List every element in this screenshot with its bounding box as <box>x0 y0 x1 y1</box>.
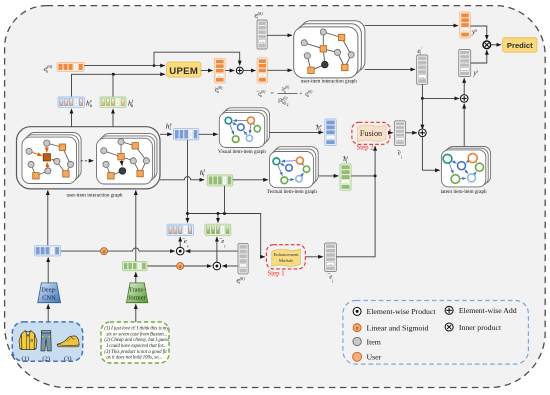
jeans icon <box>41 331 51 351</box>
svg-text:UPEM: UPEM <box>169 66 198 77</box>
wire branch to add3 <box>422 97 459 99</box>
legend sigma symbol <box>353 324 361 332</box>
op inner product <box>483 41 491 49</box>
wire h_tilde_t to fusion junction <box>351 175 375 177</box>
left user-item graph stack 2 <box>97 134 158 184</box>
wire transformer embedding to product2 <box>147 265 211 267</box>
wire transformer to embed <box>135 272 137 283</box>
svg-text:Trans-: Trans- <box>129 286 145 293</box>
latent item-item graph box <box>441 147 490 187</box>
wire reviews to transformer <box>135 304 137 322</box>
svg-text:latent item-item graph: latent item-item graph <box>441 189 488 195</box>
wire e_i(0) to graph <box>267 34 292 36</box>
embedding e_bar_t <box>205 224 231 235</box>
wire graph to e_prime_i <box>365 68 415 70</box>
junction bus e_bar_t drop <box>217 212 220 215</box>
wire h_i_v down to e_bar_v <box>187 140 189 223</box>
wire h_i_t to textual graph <box>233 179 268 181</box>
op element-wise product 1 <box>176 247 184 255</box>
wire cnn embed up to container <box>47 191 49 246</box>
wire container to h_i_t (hops over h_i_v line) <box>160 177 204 180</box>
Predict box <box>503 38 537 53</box>
embedding h_tilde_i_t <box>340 164 351 191</box>
dashed arrow between user-item graphs <box>81 160 94 162</box>
nodes and edges of left user-item graph 1 <box>26 140 74 179</box>
embedding e_i(0) bottom <box>238 243 248 274</box>
nodes of textual item-item graph <box>273 157 310 184</box>
svg-text:user-item interaction graph: user-item interaction graph <box>301 79 357 85</box>
embedding e_tilde_i <box>394 121 405 146</box>
wire container to h_i_v <box>160 133 172 135</box>
wire e_bar_i to fusion junction <box>336 178 375 257</box>
embedding h_i_t <box>207 175 232 186</box>
user-item interaction container (left) <box>17 127 161 189</box>
wire e_tilde_i to add2 <box>406 132 417 134</box>
shoe icon <box>57 336 79 347</box>
wire add3 to y_i <box>463 78 465 94</box>
svg-text:Element-wise Product: Element-wise Product <box>367 307 437 316</box>
embedding h_i_v <box>174 129 199 140</box>
svg-text:six or seven case from Buxton.: six or seven case from Buxton... <box>106 332 167 337</box>
op sigma 1 (linear+sigmoid) <box>101 248 108 255</box>
svg-text:Step 1: Step 1 <box>268 271 285 278</box>
svg-text:σ: σ <box>103 249 106 255</box>
svg-text:Visual item-item graph: Visual item-item graph <box>218 149 266 155</box>
op element-wise add 3 <box>460 95 468 103</box>
svg-text:Module: Module <box>279 258 293 263</box>
nodes of latent item-item graph <box>443 154 483 184</box>
wire cnn to embed <box>47 258 49 283</box>
wire inner product to Predict <box>491 44 501 46</box>
legend element-wise add symbol <box>445 306 453 314</box>
UPEM module box <box>167 62 201 77</box>
svg-text:Inner product: Inner product <box>459 323 502 332</box>
Deep-CNN trapezoid <box>38 283 61 303</box>
wire container to h_u_v <box>71 109 73 127</box>
wire container to h_u_t <box>112 109 114 127</box>
user-item interaction graph box (top) <box>294 21 365 78</box>
reviews text box <box>101 322 169 363</box>
wire latent graph to add3 <box>463 104 465 150</box>
svg-text:Enhancement: Enhancement <box>274 252 300 257</box>
op element-wise product 2 <box>213 262 221 270</box>
svg-text:Step 2: Step 2 <box>357 145 375 152</box>
wire add2 down to latent graph <box>422 137 439 171</box>
wire images to cnn <box>47 304 49 322</box>
wire feedback branch up over UPEM <box>154 52 240 65</box>
wire transformer embed up to container (hop crossing) <box>135 191 137 262</box>
svg-text:CNN: CNN <box>42 294 56 301</box>
formula e_bar normalization <box>256 86 314 107</box>
embedding h_u_t <box>100 97 126 107</box>
wire e_prime_i down <box>421 84 423 129</box>
wire product1 to e_bar_v <box>179 237 181 247</box>
jacket icon <box>19 331 37 350</box>
svg-text:I could have expected that for: I could have expected that for... <box>105 344 166 349</box>
svg-text:user-item interaction graph: user-item interaction graph <box>66 192 122 198</box>
junction bus h_i_t join <box>223 212 226 215</box>
wire junction up to Fusion <box>374 146 376 176</box>
wire drop to e_bar_t <box>217 214 219 223</box>
svg-text:(3): (3) <box>64 355 72 362</box>
wire y_u to inner product <box>470 26 487 39</box>
embedding cnn output <box>34 246 60 256</box>
embedding e_i(0) item init top <box>257 20 267 49</box>
wire graph to y_u <box>365 25 458 27</box>
embedding h_tilde_i_v <box>325 119 336 146</box>
junction bus left <box>186 212 189 215</box>
op element-wise add 2 <box>419 129 427 137</box>
Fusion module (step 2) <box>352 122 390 144</box>
wire UPEM to e_hat <box>201 70 213 72</box>
wire e_i(0) to product2 <box>222 265 238 267</box>
junction fusion input <box>374 174 377 177</box>
Enhancement module (step 1) <box>266 245 305 269</box>
wire enhancement to e_bar_i <box>305 256 323 258</box>
product images box <box>12 322 82 362</box>
nodes and edges of left user-item graph 2 <box>101 139 150 179</box>
svg-text:Deep-: Deep- <box>41 286 57 293</box>
wire fusion to e_tilde_i <box>390 132 393 134</box>
svg-text:(2): (2) <box>42 355 50 362</box>
embedding e_u(0) user init <box>57 62 84 71</box>
svg-text:(1): (1) <box>22 355 30 362</box>
nodes and edges of top user-item graph <box>301 29 354 74</box>
visual item-item graph box <box>219 108 269 148</box>
Transformer trapezoid <box>127 283 148 303</box>
embedding e_bar_u(0) <box>257 58 267 83</box>
embedding transformer output <box>122 261 147 270</box>
embedding y_i <box>459 50 471 77</box>
junction e_prime branch <box>421 97 424 100</box>
wire h_u_t up to bus <box>112 74 114 97</box>
wire e_i(0) to product1 <box>186 250 238 252</box>
legend inner product symbol <box>445 323 453 331</box>
junction feedback branch <box>153 64 156 67</box>
op sigma 2 (linear+sigmoid) <box>177 263 184 270</box>
svg-text:σ: σ <box>179 264 182 270</box>
svg-text:Element-wise Add: Element-wise Add <box>459 306 517 315</box>
nodes of visual item-item graph <box>225 117 260 143</box>
wire e_bar_u to graph <box>267 69 292 71</box>
left user-item graph stack 1 <box>22 133 81 184</box>
svg-text:Linear and Sigmoid: Linear and Sigmoid <box>367 324 429 333</box>
wire h_i_v to visual graph <box>199 133 218 135</box>
legend item symbol <box>353 337 361 345</box>
embedding y_u <box>460 12 471 38</box>
svg-text:(2) Cheap and cheesy, but I gu: (2) Cheap and cheesy, but I guess <box>104 338 169 343</box>
embedding e_prime_i <box>417 55 428 84</box>
op element-wise add 1 <box>236 67 243 74</box>
embedding e_bar_i <box>325 243 337 272</box>
svg-text:Textual item-item graph: Textual item-item graph <box>267 189 317 195</box>
svg-text:(1) I just love it! I think th: (1) I just love it! I think this is my <box>104 327 169 332</box>
embedding h_u_v <box>58 97 85 107</box>
svg-text:(3) This product is not a good: (3) This product is not a good fit <box>104 350 167 355</box>
textual item-item graph box <box>270 147 319 188</box>
svg-text:former: former <box>128 294 146 301</box>
embedding e_hat_u(0) <box>214 58 225 83</box>
embedding e_bar_v <box>167 224 193 235</box>
svg-text:+: + <box>299 92 303 98</box>
svg-text:as it does not hold 100s, so..: as it does not hold 100s, so... <box>106 356 162 361</box>
wire y_i to inner product <box>471 50 487 63</box>
wire h bus to UPEM lower input <box>72 74 165 97</box>
legend box <box>343 301 529 365</box>
legend user symbol <box>353 352 362 361</box>
wire product2 to e_bar_t <box>216 237 218 262</box>
svg-text:Fusion: Fusion <box>360 129 382 138</box>
svg-text:Item: Item <box>367 337 381 346</box>
wire e_hat to plus1 <box>225 70 234 72</box>
svg-text:σ: σ <box>356 326 359 332</box>
svg-text:˜ hvi: ˜ hvi <box>315 123 322 132</box>
wire textual graph to h_tilde_t <box>318 175 338 177</box>
junction h_u_t joins bus <box>112 73 115 76</box>
wire visual graph to h_tilde_v <box>269 131 323 133</box>
wire cnn embedding to product1 with hop <box>61 248 175 251</box>
svg-text:Predict: Predict <box>507 41 533 50</box>
legend element-wise product symbol <box>353 307 361 315</box>
wire plus1 to e_bar <box>243 70 255 72</box>
svg-text:User: User <box>367 353 382 362</box>
wire bus to enhancement <box>188 214 265 257</box>
wire e_u(0) to UPEM top input <box>84 65 165 67</box>
wire h_i_t down to bus <box>224 186 226 214</box>
